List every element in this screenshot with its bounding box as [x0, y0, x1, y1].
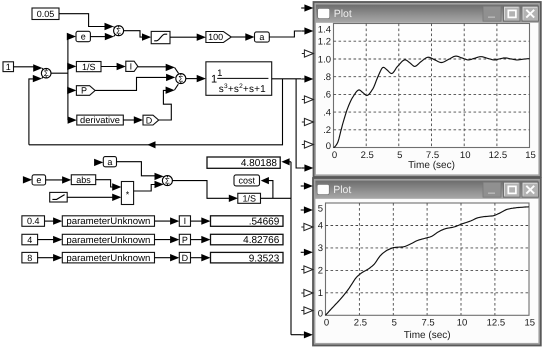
sum junction S3 (PID sum)	[176, 74, 186, 84]
svg-text:0: 0	[324, 318, 329, 329]
svg-text:e: e	[36, 175, 41, 185]
svg-text:8: 8	[27, 253, 32, 263]
wire I to sum S3	[138, 66, 167, 68]
svg-text:4: 4	[27, 235, 32, 245]
gain block D	[143, 115, 159, 125]
numeric display 4.82766	[211, 234, 284, 245]
feedback wire into sum S2	[29, 79, 33, 145]
wire 1/S to gain I	[101, 66, 117, 68]
from tag e (cost section)	[24, 179, 25, 181]
const block 4	[22, 234, 38, 245]
svg-text:cost: cost	[239, 176, 256, 186]
svg-text:1.2: 1.2	[318, 37, 331, 48]
wire branch to 1/S	[67, 65, 70, 67]
variable block D	[179, 252, 190, 263]
plot window 1 input pins	[301, 4, 313, 171]
wire plant output to plot1 pin4	[272, 78, 301, 80]
sum junction S1 (setpoint weight)	[114, 26, 124, 36]
svg-text:12.5: 12.5	[489, 150, 508, 161]
plot window 1 title icon	[318, 9, 330, 19]
const block 0.4	[22, 216, 45, 227]
svg-text:100: 100	[208, 32, 223, 42]
plot window 1 frame	[314, 2, 541, 177]
wire plant output feedback branch	[29, 79, 283, 145]
svg-text:Σ: Σ	[44, 69, 49, 78]
numeric display .54669	[211, 216, 284, 227]
wire saturation to gain 100	[170, 36, 197, 38]
abs block	[71, 175, 95, 185]
svg-text:I: I	[184, 216, 187, 226]
svg-text:4.82766: 4.82766	[243, 235, 280, 246]
cost display block	[234, 175, 260, 186]
wire multiplier to sum S4	[134, 185, 156, 192]
feedback direction arrow	[147, 141, 155, 148]
svg-text:1: 1	[6, 62, 11, 72]
parameterUnknown block (I)	[62, 216, 154, 227]
wire S2 output to branch line	[51, 72, 68, 74]
wire cost to plot2 pin8	[291, 334, 301, 336]
wire to cost display	[266, 181, 273, 199]
svg-text:5: 5	[397, 150, 402, 161]
numeric display 9.3523	[211, 252, 284, 263]
plot window 1 minimize button	[483, 6, 501, 21]
plot 1 grid	[334, 24, 530, 148]
svg-text:3: 3	[318, 243, 323, 254]
variable block I	[179, 216, 190, 227]
svg-text:Σ: Σ	[178, 75, 183, 84]
svg-text:.2: .2	[323, 125, 331, 136]
plot window 2 title icon	[317, 185, 329, 195]
svg-text:15: 15	[525, 318, 536, 329]
gain block I	[126, 61, 138, 71]
svg-text:9.3523: 9.3523	[249, 253, 280, 264]
svg-text:4.80188: 4.80188	[241, 158, 278, 169]
svg-text:Σ: Σ	[116, 27, 121, 36]
wire S4 to integrator	[172, 181, 229, 199]
svg-text:parameterUnknown: parameterUnknown	[66, 235, 150, 246]
wire branch to P	[67, 87, 76, 94]
sum junction S4 (cost)	[162, 176, 172, 186]
wire 100 to goto a	[231, 36, 246, 38]
plot window 1 title bar	[316, 5, 539, 23]
svg-text:*: *	[126, 190, 130, 200]
svg-text:7.5: 7.5	[421, 318, 434, 329]
plot window 1 client area	[316, 23, 539, 175]
from tag a (cost section)	[95, 161, 96, 163]
wire 0.4 to parameterUnknown	[45, 220, 55, 222]
const block 8	[22, 252, 38, 263]
wire plant output to plot1 pin8	[296, 79, 301, 168]
svg-text:1/S: 1/S	[82, 62, 96, 72]
plot 2 signal curve	[326, 207, 529, 315]
svg-text:Plot: Plot	[333, 184, 351, 196]
svg-text:a: a	[107, 157, 112, 167]
svg-text:.4: .4	[323, 107, 331, 118]
wire D to display	[191, 257, 203, 259]
wire I to display	[191, 220, 203, 222]
multiplier block *	[121, 182, 133, 205]
wire a to plot1 pin2	[269, 31, 301, 37]
wire S1 to saturation	[124, 31, 143, 37]
svg-text:Time (sec): Time (sec)	[408, 160, 455, 171]
wire S3 to plant	[186, 78, 198, 80]
wire 1 to sum S2	[14, 66, 34, 68]
wire parameterUnknown to I	[155, 220, 172, 222]
svg-text:4: 4	[318, 221, 323, 232]
svg-text:5: 5	[318, 204, 323, 215]
wire ramp to multiplier	[67, 196, 113, 198]
svg-text:1/S: 1/S	[242, 194, 256, 204]
branch vertical wire	[67, 37, 69, 121]
svg-text:1.0: 1.0	[318, 54, 331, 65]
wire P to display	[191, 239, 203, 241]
svg-text:0: 0	[318, 309, 323, 320]
svg-text:a: a	[259, 32, 264, 42]
const block 0.05	[32, 8, 59, 20]
svg-text:e: e	[81, 32, 86, 42]
wire 8 to parameterUnknown	[38, 257, 54, 259]
svg-text:I: I	[130, 62, 133, 72]
goto tag a	[255, 32, 270, 42]
ramp block	[50, 192, 67, 202]
integrator block 1/S (cost)	[238, 193, 261, 203]
svg-text:derivative: derivative	[80, 115, 120, 125]
plot window 2 frame	[313, 178, 541, 346]
svg-text:2: 2	[318, 266, 323, 277]
svg-text:10: 10	[460, 150, 471, 161]
gain block 100	[206, 32, 231, 43]
numeric display 4.80188	[207, 157, 280, 168]
const block 1	[3, 62, 14, 72]
wire D to sum S3 staircase	[159, 90, 172, 120]
plot 1 signal curve	[334, 56, 530, 147]
svg-text:5: 5	[392, 318, 397, 329]
wire P to sum S3	[95, 77, 167, 90]
plot 2 grid	[326, 203, 530, 315]
wire derivative to gain D	[123, 119, 134, 121]
wire abs to multiplier	[96, 180, 113, 187]
plot window 1 maximize button	[504, 6, 521, 21]
svg-text:.8: .8	[323, 72, 331, 83]
wire e to sum S1	[90, 36, 105, 38]
plot window 2 client area	[315, 199, 538, 343]
gain block P	[76, 86, 95, 96]
svg-text:15: 15	[525, 150, 536, 161]
svg-text:0.05: 0.05	[37, 9, 55, 19]
svg-text:0: 0	[332, 150, 337, 161]
svg-text:2.5: 2.5	[361, 150, 374, 161]
plot window 2 minimize button	[483, 182, 501, 197]
sum junction S2 (error)	[41, 68, 51, 78]
svg-text:0: 0	[326, 141, 331, 152]
wire e to abs	[46, 179, 63, 181]
integrator block 1/S	[76, 62, 101, 72]
saturation block	[151, 31, 170, 43]
parameterUnknown block (P)	[62, 234, 154, 245]
plot window 2 title bar	[315, 181, 538, 199]
plot 2 axes box	[326, 203, 530, 315]
wire integrator output	[261, 197, 292, 199]
wire 0.05 to sum S1	[59, 14, 105, 27]
svg-text:2.5: 2.5	[354, 318, 367, 329]
svg-text:12.5: 12.5	[487, 318, 506, 329]
svg-text:Time (sec): Time (sec)	[404, 330, 451, 341]
wire 4 to parameterUnknown	[38, 239, 54, 241]
svg-text:parameterUnknown: parameterUnknown	[66, 253, 150, 264]
plot 1 axes box	[334, 24, 530, 148]
svg-text:P: P	[182, 235, 188, 245]
transfer function block 1/(s^3+s^2+s+1)	[206, 62, 272, 96]
svg-text:.54669: .54669	[249, 217, 280, 228]
svg-text:parameterUnknown: parameterUnknown	[66, 216, 150, 227]
derivative block	[77, 115, 124, 125]
wire parameterUnknown to P	[155, 239, 172, 241]
parameterUnknown block (D)	[62, 252, 154, 263]
svg-text:0.4: 0.4	[27, 216, 40, 226]
svg-text:P: P	[81, 86, 87, 96]
wire parameterUnknown to D	[155, 257, 172, 259]
svg-text:1: 1	[318, 288, 323, 299]
wire a to sum S4	[117, 162, 156, 176]
svg-text:1.4: 1.4	[318, 25, 331, 36]
svg-text:10: 10	[457, 318, 468, 329]
wire branch to derivative	[67, 119, 70, 121]
plot window 1 close button	[522, 6, 539, 21]
plot window 2 maximize button	[504, 182, 521, 197]
svg-text:Plot: Plot	[334, 8, 352, 20]
plot window 2 close button	[522, 182, 539, 197]
goto tag e	[67, 33, 76, 40]
variable block P	[179, 234, 190, 245]
svg-text:D: D	[146, 115, 153, 125]
svg-text:1: 1	[217, 68, 222, 79]
wire to 4.80188 display	[289, 161, 291, 163]
svg-text:D: D	[182, 253, 189, 263]
svg-text:abs: abs	[76, 175, 91, 185]
svg-text:Σ: Σ	[165, 177, 170, 186]
cost distribution vertical wire	[290, 162, 292, 335]
svg-text:.6: .6	[323, 90, 331, 101]
plot window 2 input pins	[301, 182, 313, 338]
